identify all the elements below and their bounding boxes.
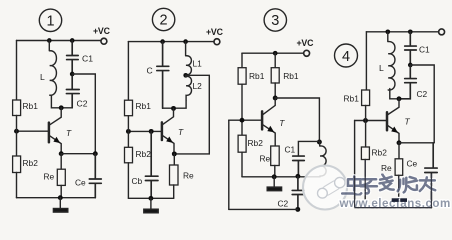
wire top rail: [128, 41, 214, 43]
wire top rail: [366, 31, 438, 33]
terminal +VC: [101, 38, 107, 44]
capacitor C2: [292, 176, 304, 209]
svg-text:Rb1: Rb1: [344, 94, 360, 104]
svg-text:+VC: +VC: [93, 26, 111, 36]
node dot base/rail: [363, 118, 368, 123]
svg-text:T: T: [279, 118, 285, 128]
resistor Rb1 (left): [238, 68, 246, 85]
node dot collector: [397, 96, 402, 101]
wire collector to right rail: [275, 98, 319, 142]
node dot emitter: [397, 140, 402, 145]
watermark logo: [303, 166, 347, 210]
wire L-bottom: [51, 95, 72, 108]
wire emitter row: [399, 142, 434, 144]
wire C1 top link: [298, 141, 319, 156]
resistor Rb1: [13, 100, 21, 116]
wire collector stem: [388, 99, 399, 115]
terminal +VC: [214, 39, 220, 45]
wire bottom rail redraw (circuit 4): [355, 160, 432, 208]
capacitor C2: [66, 76, 79, 108]
node dot base/rail: [240, 118, 245, 123]
svg-text:4: 4: [342, 49, 350, 65]
node dot ground: [148, 196, 153, 201]
inductor L: [49, 41, 56, 96]
node dot C-top: [160, 39, 165, 44]
wire base: [229, 119, 262, 121]
svg-text:Rb2: Rb2: [136, 149, 152, 159]
resistor Rb1 (right): [274, 53, 276, 67]
node dot bottom: [295, 207, 300, 212]
node dot base: [14, 129, 19, 134]
node dot Cb junction: [149, 129, 154, 134]
resistor Rb2: [13, 156, 21, 173]
node dot Re-gnd: [272, 174, 277, 179]
wire node to right rail: [410, 65, 434, 143]
svg-text:3: 3: [271, 13, 279, 29]
capacitor C1: [405, 32, 417, 63]
svg-text:L2: L2: [193, 81, 203, 91]
capacitor C1: [67, 41, 79, 72]
resistor Rb2: [125, 147, 133, 163]
node dot base-left: [126, 129, 131, 134]
svg-text:+VC: +VC: [297, 38, 315, 48]
svg-text:C2: C2: [417, 89, 428, 99]
inductor L2: [186, 75, 192, 100]
svg-text:1: 1: [46, 13, 54, 29]
transistor T (Q1): [48, 123, 51, 143]
svg-text:L: L: [40, 72, 45, 82]
wire emitter row: [61, 153, 95, 155]
capacitor C2: [399, 65, 416, 99]
svg-text:Rb1: Rb1: [249, 71, 265, 81]
svg-text:C2: C2: [278, 199, 289, 209]
wire base: [17, 130, 49, 132]
inductor L: [388, 32, 395, 90]
node dot collector: [273, 96, 278, 101]
inductor L3: [320, 142, 326, 177]
svg-text:L: L: [379, 63, 384, 73]
node dot collector: [171, 106, 176, 111]
node dot right rail: [317, 140, 322, 145]
wire outer feedback left: [354, 121, 356, 208]
node dot C1-top: [70, 38, 75, 43]
svg-text:T: T: [66, 128, 72, 138]
wire bottom rail: [355, 207, 432, 209]
svg-text:C2: C2: [77, 99, 88, 109]
node dot C1C2: [295, 174, 300, 179]
label circle 2: [152, 8, 174, 30]
wire collector stem: [163, 108, 174, 124]
transistor T (Q2): [161, 122, 164, 140]
node A (C1/C2 junction): [70, 72, 75, 77]
svg-text:C: C: [147, 66, 153, 76]
wire left rail: [16, 41, 18, 101]
resistor Rb2: [361, 147, 369, 160]
transistor T (Q3): [261, 111, 264, 129]
node dot Rb1b-top: [273, 51, 278, 56]
wire base: [128, 130, 161, 132]
node dot L-top: [385, 29, 390, 34]
node dot right branch: [93, 151, 98, 156]
ground: [59, 198, 61, 209]
svg-text:Ce: Ce: [75, 178, 86, 188]
resistor Re: [271, 146, 280, 166]
label circle 4: [335, 44, 358, 67]
svg-text:Ce: Ce: [407, 159, 418, 169]
capacitor C1: [293, 156, 305, 175]
ground: [150, 198, 152, 209]
svg-text:2: 2: [160, 13, 168, 29]
svg-text:T: T: [405, 117, 411, 127]
capacitor Ce: [425, 143, 437, 208]
wire left rail top: [365, 32, 367, 90]
node dot C1/C2: [408, 63, 413, 68]
svg-text:Rb2: Rb2: [248, 138, 264, 148]
capacitor Ce: [89, 154, 101, 198]
ground (circuit 4): [392, 198, 399, 202]
transistor T (Q4): [386, 112, 389, 130]
svg-text:T: T: [178, 127, 184, 137]
wire base: [355, 120, 387, 122]
wire L-bottom: [390, 89, 399, 99]
svg-text:C1: C1: [419, 45, 430, 55]
capacitor C: [157, 42, 169, 109]
svg-text:Rb1: Rb1: [136, 101, 152, 111]
terminal output: [439, 29, 445, 35]
node dot L tap: [183, 73, 188, 78]
node dot L-top: [47, 38, 52, 43]
svg-text:L1: L1: [193, 59, 203, 69]
resistor Rb1: [125, 100, 133, 116]
wire top rail: [17, 40, 101, 42]
node dot collector: [59, 105, 64, 110]
node dot emitter: [59, 151, 64, 156]
wire outer feedback left: [228, 120, 230, 209]
wire ground row: [242, 176, 320, 178]
resistor Re: [398, 143, 400, 159]
svg-text:Re: Re: [44, 172, 55, 182]
wire tap to right rail: [174, 75, 209, 154]
svg-text:Cb: Cb: [132, 176, 143, 186]
svg-text:Rb2: Rb2: [23, 158, 39, 168]
svg-text:Rb1: Rb1: [23, 101, 39, 111]
svg-text:+VC: +VC: [206, 27, 224, 37]
wire collector stem: [50, 108, 62, 125]
node dot emitter: [172, 151, 177, 156]
wire bottom rail: [229, 208, 298, 210]
svg-text:Rb2: Rb2: [372, 148, 388, 158]
terminal +VC: [304, 50, 310, 56]
resistor Rb1: [362, 90, 370, 106]
node dot C1-top: [408, 29, 413, 34]
wire bottom rail: [17, 197, 96, 199]
resistor Re: [60, 154, 62, 170]
node dot L1-top: [183, 39, 188, 44]
ground: [273, 177, 275, 187]
svg-text:Re: Re: [381, 163, 392, 173]
svg-text:Re: Re: [260, 154, 271, 164]
svg-text:Re: Re: [183, 171, 194, 181]
capacitor Cb: [145, 131, 158, 198]
wire collector stem: [263, 98, 275, 115]
wire top rail: [242, 52, 304, 54]
wire left rail: [127, 42, 129, 101]
wire L2 bottom: [163, 101, 187, 108]
svg-text:C1: C1: [285, 145, 296, 155]
wire bottom rail: [128, 197, 173, 199]
svg-text:C1: C1: [82, 54, 93, 64]
watermark main text 电子发烧友: [342, 174, 435, 194]
wire left inner rail: [241, 53, 243, 67]
inductor L1: [186, 42, 192, 75]
label circle 1: [39, 9, 61, 31]
resistor Re: [173, 154, 175, 165]
resistor Rb2: [238, 135, 246, 152]
node dot ground: [58, 195, 63, 200]
svg-text:Rb1: Rb1: [283, 71, 299, 81]
wire node A to right branch: [72, 74, 95, 152]
label circle 3: [264, 9, 286, 31]
